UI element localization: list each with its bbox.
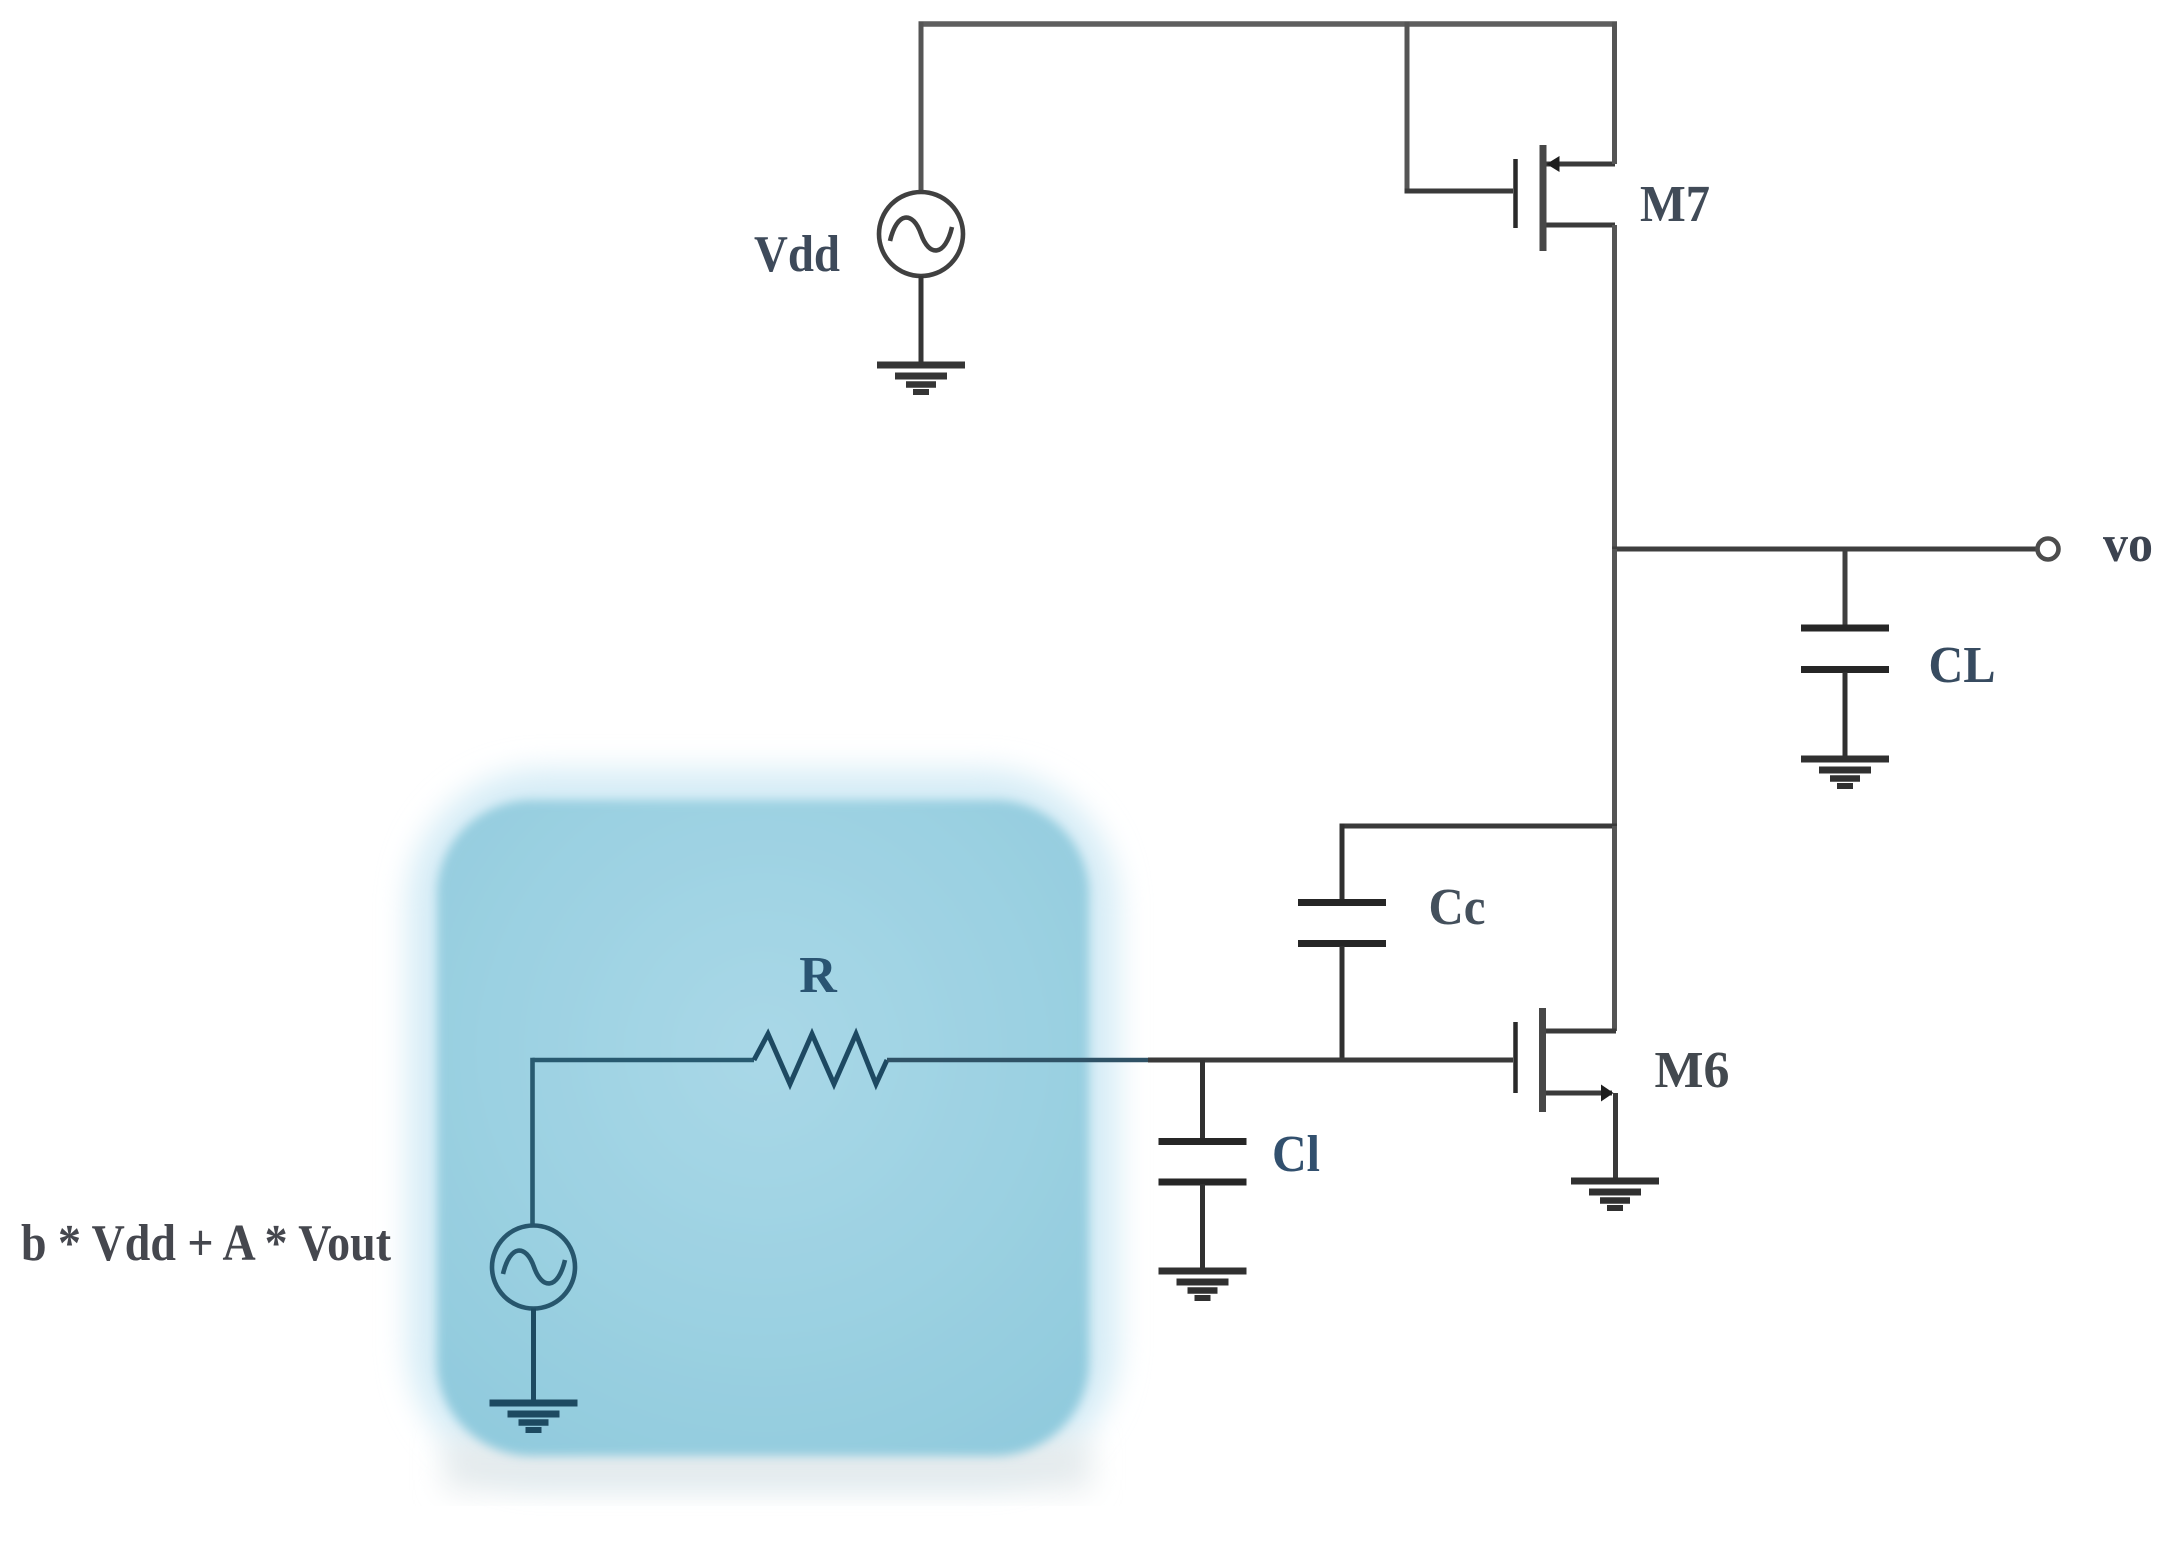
- wire Cc to gate node: [1340, 946, 1345, 1060]
- blue highlight box outer glow: [408, 770, 1118, 1480]
- svg-text:M6: M6: [1655, 1042, 1730, 1099]
- svg-text:b * Vdd + A * Vout: b * Vdd + A * Vout: [21, 1215, 392, 1272]
- wire source to ground (blue box): [531, 1309, 536, 1403]
- wire top rail to M7 source: [1612, 22, 1617, 165]
- wire resistor to box edge: [887, 1058, 1148, 1063]
- wire output node down to Cc node: [1612, 549, 1617, 826]
- resistor R: [754, 1034, 887, 1084]
- transistor M7: [1516, 145, 1616, 251]
- ground (Vdd): [877, 365, 965, 392]
- label Cc: [1429, 879, 1486, 936]
- capacitor Cc: [1298, 903, 1386, 944]
- svg-text:R: R: [799, 947, 838, 1004]
- label b*Vdd+A*Vout: [21, 1215, 392, 1272]
- wire source to resistor (inside box): [533, 1058, 755, 1063]
- wire Vdd to ground: [919, 276, 924, 364]
- label vo: [2103, 516, 2153, 573]
- label R: [799, 947, 838, 1004]
- label M7: [1640, 176, 1710, 233]
- wire Cl to ground: [1200, 1184, 1205, 1270]
- svg-text:Cc: Cc: [1429, 879, 1486, 936]
- wire Cc node down to M6 drain: [1612, 826, 1617, 1031]
- terminal vo: [2038, 539, 2059, 560]
- svg-text:vo: vo: [2103, 516, 2153, 573]
- wire gate node to M6 gate (outside box): [1148, 1058, 1513, 1063]
- transistor M6: [1516, 1008, 1617, 1112]
- wire CL to ground: [1843, 672, 1848, 758]
- wire top rail: [919, 21, 1618, 27]
- ground (source): [490, 1403, 578, 1430]
- ground (Cl): [1159, 1271, 1247, 1298]
- wire Cl branch: [1200, 1060, 1205, 1138]
- wire output node to vo terminal: [1612, 547, 2037, 552]
- wire gate node down to source (blue box): [530, 1058, 535, 1226]
- wire M7 gate loop vertical: [1405, 22, 1410, 192]
- wire vo node to CL: [1843, 549, 1848, 625]
- label CL: [1929, 637, 1996, 694]
- source Vdd: [879, 192, 963, 276]
- ground (M6): [1571, 1181, 1659, 1208]
- svg-text:Cl: Cl: [1272, 1126, 1320, 1183]
- ground (CL): [1801, 759, 1889, 786]
- svg-text:CL: CL: [1929, 637, 1996, 694]
- capacitor Cl: [1159, 1142, 1247, 1183]
- capacitor CL: [1801, 628, 1889, 670]
- source b*Vdd+A*Vout: [492, 1226, 575, 1309]
- wire Vdd top vertical: [919, 22, 924, 193]
- wire Cc top horizontal: [1342, 824, 1617, 829]
- label M6: [1655, 1042, 1730, 1099]
- wire Cc branch vertical: [1340, 824, 1345, 900]
- svg-text:Vdd: Vdd: [754, 226, 840, 283]
- wire M7 drain to output node: [1612, 225, 1617, 549]
- svg-text:M7: M7: [1640, 176, 1710, 233]
- label Vdd: [754, 226, 840, 283]
- blue highlight box: [437, 800, 1089, 1456]
- wire M6 source to ground: [1613, 1093, 1618, 1180]
- label Cl: [1272, 1126, 1320, 1183]
- wire M7 gate horizontal: [1405, 189, 1514, 194]
